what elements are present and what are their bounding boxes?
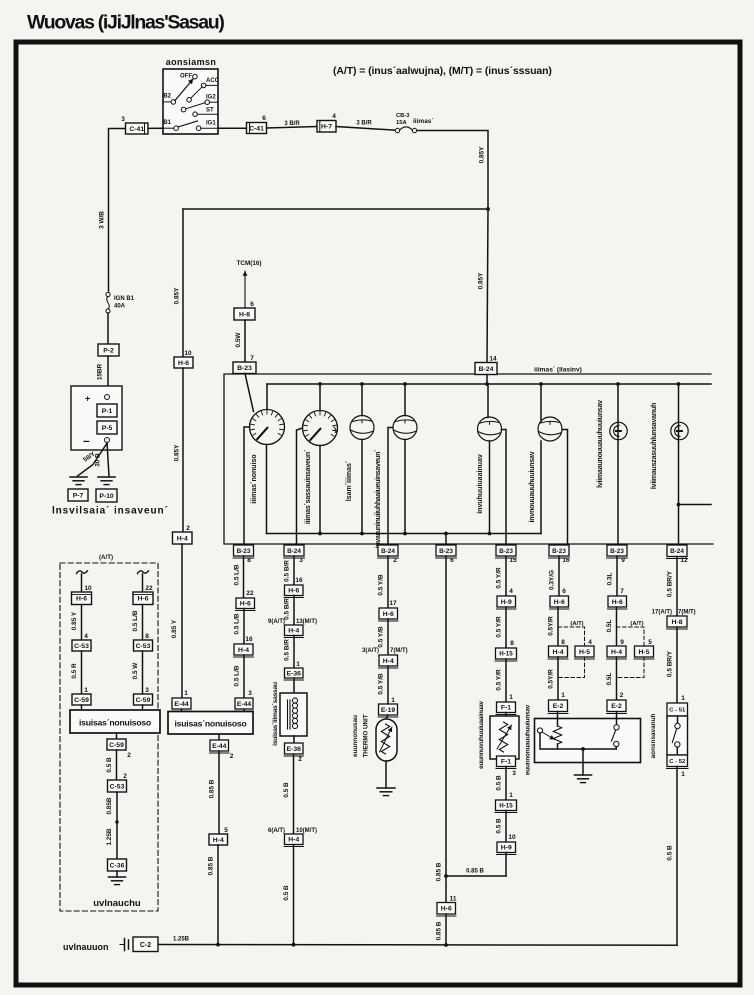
temp gauge	[393, 416, 417, 440]
wire 0.85 B E-44 to H-4	[209, 751, 220, 834]
pin labels 9(A/T) 13(M/T)	[268, 619, 317, 625]
water filter lamp label	[651, 403, 658, 489]
connector C-59 pin 3	[134, 687, 153, 705]
wire 0.5 L/B B-23-8 to H-6	[234, 556, 244, 598]
svg-text:0.5Y/R: 0.5Y/R	[548, 616, 555, 636]
panel bottom bus	[267, 533, 542, 535]
wire 0.3L B-23-9 to H-6	[607, 556, 618, 596]
connector B-24 pin 12	[667, 545, 688, 564]
connector C-52 pin 1	[667, 755, 689, 778]
svg-text:H-6: H-6	[288, 588, 299, 595]
svg-text:B-23: B-23	[499, 548, 513, 555]
connector E-19 pin 1	[378, 697, 398, 717]
wire tach left exit	[297, 428, 303, 545]
connector B-23 pin 16	[549, 545, 570, 564]
wire 0.5 B/R H-4 to E-36	[284, 636, 295, 669]
wire label 15BR	[97, 356, 109, 395]
svg-text:6: 6	[450, 557, 454, 564]
connector H-9 pin 4	[497, 588, 517, 609]
svg-text:H-15: H-15	[499, 802, 513, 809]
svg-text:2: 2	[186, 525, 190, 532]
svg-text:30 B: 30 B	[95, 453, 102, 467]
svg-text:2: 2	[230, 753, 234, 760]
junction at feeder split	[486, 207, 490, 211]
svg-text:H-4: H-4	[213, 837, 224, 844]
wire lamp1 through	[617, 384, 619, 545]
connector H-4 pin 5	[209, 827, 228, 845]
connector B-24 pin 3	[284, 545, 305, 564]
svg-text:H-6: H-6	[612, 599, 623, 606]
svg-text:C-53: C-53	[74, 643, 89, 650]
svg-text:IGN B1: IGN B1	[114, 296, 135, 302]
connector B-24 pin 2	[378, 545, 399, 564]
svg-text:3(A/T): 3(A/T)	[362, 648, 379, 654]
wire 0.5 Y/B H-4 to E-19	[378, 666, 389, 704]
svg-text:lnsvilsaia´ insaveun´: lnsvilsaia´ insaveun´	[52, 506, 169, 517]
svg-text:euunnonuauuhuuiunsav: euunnonuauuhuuiunsav	[525, 704, 532, 775]
svg-text:11: 11	[450, 896, 457, 903]
svg-text:C-59: C-59	[136, 697, 151, 704]
junction lamp2 branch	[677, 503, 681, 507]
svg-text:0.5 L/B: 0.5 L/B	[234, 613, 241, 634]
svg-text:B1: B1	[163, 120, 171, 126]
connector H-6 pin 22	[236, 590, 256, 611]
svg-text:1.25B: 1.25B	[173, 937, 190, 943]
connector H-4 pin 8	[548, 639, 568, 659]
svg-text:F-1: F-1	[501, 705, 511, 712]
wire 0.5L H-6 to H-4	[606, 607, 617, 646]
svg-text:6: 6	[262, 115, 266, 122]
tach sensor rotated label	[272, 682, 279, 746]
svg-text:H-9: H-9	[501, 845, 512, 852]
wire speedometer bottom	[266, 445, 268, 534]
voltmeter label	[346, 460, 353, 501]
svg-text:C-53: C-53	[136, 643, 151, 650]
svg-text:P-10: P-10	[99, 493, 114, 500]
svg-text:2: 2	[620, 692, 624, 699]
title text	[27, 12, 224, 34]
svg-text:2: 2	[123, 773, 127, 780]
svg-text:0.85 B: 0.85 B	[436, 921, 443, 940]
wire label 30 B	[95, 453, 102, 467]
dashed A/T branch to H-5 pin 5	[617, 621, 653, 646]
oil gauge	[538, 417, 562, 441]
switch terminal IG1	[196, 121, 218, 131]
wire 0.5 Y/R B-23-15 to H-9	[496, 556, 507, 596]
svg-text:C-36: C-36	[110, 862, 125, 869]
wire 0.85 B branch to fuel column	[446, 869, 506, 877]
label chassis / engine	[52, 506, 169, 517]
svg-text:6(A/T): 6(A/T)	[268, 828, 285, 834]
wire label 1.25B (A/T)	[106, 828, 113, 845]
node TCM(16)	[237, 260, 262, 267]
wire tach bottom	[318, 446, 322, 536]
wire voltmeter top	[361, 384, 363, 416]
tachometer label	[305, 449, 312, 524]
svg-text:7(M/T): 7(M/T)	[390, 648, 408, 654]
wire 0.5 B H-4 to bottom	[283, 845, 294, 945]
bus junction temp	[403, 382, 407, 386]
switch terminal IG2	[205, 95, 218, 105]
connector H-6 pin 16	[284, 577, 304, 598]
svg-text:–: –	[83, 434, 90, 448]
dashed A/T branch below H-5 (2)	[617, 657, 645, 678]
svg-text:40A: 40A	[114, 304, 126, 310]
wire 0.85B (A/T)	[106, 792, 117, 859]
svg-text:TCM(16): TCM(16)	[237, 260, 262, 267]
connector H-4 pin 2	[173, 525, 193, 544]
svg-text:22: 22	[246, 590, 254, 597]
svg-text:CB-3: CB-3	[396, 113, 410, 119]
bus junction B-24 feed	[485, 382, 489, 386]
svg-text:2: 2	[127, 752, 131, 759]
svg-text:0.5 B: 0.5 B	[496, 818, 503, 834]
svg-text:H-8: H-8	[672, 619, 683, 626]
connector B-23 pin 9	[607, 545, 628, 564]
svg-text:1: 1	[509, 792, 513, 799]
svg-text:aonsnsavanuh: aonsnsavanuh	[650, 714, 657, 759]
wire label 3 B/R	[267, 121, 318, 128]
speed sensor box (A/T)	[70, 705, 160, 733]
wire 0.5 B/R B-24-3 to H-6	[284, 556, 295, 585]
oil unit ground tap	[581, 747, 585, 775]
connector H-6 pin 17	[379, 600, 399, 621]
dashed A/T branch below H-5	[558, 657, 585, 678]
svg-text:C-53: C-53	[110, 783, 125, 790]
connector C-53 pin 4	[72, 633, 91, 651]
wire 0.5Y/R H-4 to E-2	[548, 657, 559, 700]
dashed box (A/T) left fender	[60, 554, 158, 911]
wire 0.3Y/G B-23-16 to H-6	[549, 556, 560, 596]
svg-text:0.5 L/B: 0.5 L/B	[132, 610, 139, 631]
junction bottom ground col	[444, 943, 448, 947]
wire 0.5L H-4 to E-2	[606, 657, 617, 700]
svg-text:0.5 Y/B: 0.5 Y/B	[378, 673, 385, 695]
wire diagonal 58/Y	[78, 444, 107, 476]
svg-text:0.5 B: 0.5 B	[283, 782, 290, 798]
connector E-44 pin 1	[172, 690, 192, 711]
svg-text:isuisas´nonuisoso: isuisas´nonuisoso	[174, 719, 246, 729]
svg-text:8: 8	[247, 557, 251, 564]
svg-text:0.85Y: 0.85Y	[479, 146, 486, 163]
wire 0.85 Y (A/T)	[71, 605, 82, 641]
wire 0.5 Y/B B-24-2 to H-6	[378, 556, 389, 608]
svg-text:H-5: H-5	[639, 649, 650, 656]
svg-text:1: 1	[184, 690, 188, 697]
wire pigtail-L to H-6	[82, 574, 92, 592]
oil warning lamp label	[597, 400, 604, 488]
svg-text:4: 4	[84, 633, 88, 640]
water filter switch	[667, 716, 688, 755]
tach sensor coil	[280, 661, 307, 743]
bottom ground wire	[158, 944, 677, 947]
svg-text:lviimauszasuuhlunsavanuh: lviimauszasuuhlunsavanuh	[651, 403, 658, 489]
svg-text:15: 15	[509, 557, 517, 564]
svg-text:+: +	[85, 394, 90, 404]
wire label 0.85Y (2)	[478, 272, 485, 289]
svg-text:0.85 B: 0.85 B	[466, 869, 484, 875]
bus junction lamp1	[616, 382, 620, 386]
connector C-2	[133, 937, 158, 952]
wire 0.5 B C-52 to bottom	[667, 767, 678, 946]
wire 0.5Y/R H-6 to H-4	[548, 607, 559, 646]
svg-text:3 W/B: 3 W/B	[99, 211, 106, 229]
svg-text:0.5 B: 0.5 B	[283, 885, 290, 901]
circuit breaker CB-3 15A	[395, 113, 433, 133]
svg-text:3: 3	[145, 687, 149, 694]
wire label 0.5W	[235, 320, 245, 362]
connector H-7 pin 4	[317, 113, 336, 132]
svg-text:0.5L: 0.5L	[606, 673, 613, 686]
svg-text:B-23: B-23	[237, 365, 252, 372]
fuse IGN B1 40A	[106, 292, 135, 313]
svg-text:E-2: E-2	[611, 703, 622, 710]
svg-text:Wuovas (iJiJlnas'Sasau): Wuovas (iJiJlnas'Sasau)	[27, 12, 224, 34]
wire pigtail-R to H-6	[143, 574, 153, 592]
connector B-23 pin 15	[496, 545, 517, 564]
svg-text:invuhuuiuaainuav: invuhuuiuaainuav	[477, 454, 484, 514]
connector H-9 pin 10	[497, 834, 517, 855]
svg-text:B-23: B-23	[610, 548, 624, 555]
connector E-2 pin 2	[607, 692, 627, 714]
wire 0.5 L/B H-6 to H-4	[234, 609, 245, 645]
svg-text:13(M/T): 13(M/T)	[296, 619, 317, 625]
svg-text:1: 1	[509, 694, 513, 701]
svg-text:H-4: H-4	[238, 647, 249, 654]
svg-text:17(A/T): 17(A/T)	[652, 610, 672, 616]
svg-text:H-15: H-15	[499, 651, 513, 658]
svg-text:B-24: B-24	[670, 548, 684, 555]
svg-text:6: 6	[562, 588, 566, 595]
connector H-4 pin 9/13	[284, 625, 304, 638]
svg-text:euunnuvuhuuiuaainuav: euunnuvuhuuiuaainuav	[478, 701, 485, 769]
svg-text:H-7: H-7	[321, 124, 332, 131]
connector H-6 pin 7	[608, 588, 628, 609]
wire label 58/Y	[82, 450, 97, 464]
svg-text:15A: 15A	[396, 120, 407, 126]
svg-text:0.5 B: 0.5 B	[496, 775, 503, 791]
svg-text:0.5Y/R: 0.5Y/R	[548, 669, 555, 689]
svg-text:iiimas´: iiimas´	[413, 118, 434, 125]
svg-text:H-9: H-9	[501, 599, 512, 606]
junction bottom left sensor	[216, 943, 220, 947]
svg-text:6: 6	[250, 301, 254, 308]
svg-text:22: 22	[145, 585, 153, 592]
svg-text:P-2: P-2	[103, 347, 114, 354]
svg-text:C-2: C-2	[140, 942, 151, 949]
ground engine right	[98, 477, 115, 485]
svg-text:(A/T): (A/T)	[99, 554, 113, 561]
svg-text:iiimas´ (ilasinv): iiimas´ (ilasinv)	[534, 367, 582, 374]
svg-text:0.5 B/R: 0.5 B/R	[284, 639, 291, 661]
wire label 0.85Y	[479, 146, 486, 163]
connector C-53 pin 8	[134, 633, 153, 651]
connector E-36 pin 2	[284, 743, 304, 763]
connector F-1 pin 3	[496, 756, 516, 777]
ground chassis left	[70, 477, 87, 485]
wire B-23-6 down	[436, 556, 447, 903]
svg-text:3 B/R: 3 B/R	[356, 121, 372, 127]
connector H-6 pin 10 (A/T)	[72, 592, 92, 605]
svg-text:C-41: C-41	[129, 126, 144, 133]
svg-text:3: 3	[512, 770, 516, 777]
connector H-6 pin 6	[550, 588, 570, 609]
bottom bus junction voltmeter	[360, 532, 364, 536]
svg-text:1: 1	[84, 687, 88, 694]
svg-text:7: 7	[620, 588, 624, 595]
connector P-1	[97, 404, 117, 417]
svg-text:10(M/T): 10(M/T)	[296, 828, 317, 834]
svg-text:B-23: B-23	[439, 548, 453, 555]
svg-text:1: 1	[681, 771, 685, 778]
wire C-41 left to switch	[148, 127, 163, 129]
fuel sender unit	[490, 713, 519, 760]
svg-text:H-8: H-8	[239, 311, 250, 318]
connector H-8 pin 17/7	[667, 616, 688, 629]
wire fuel top	[487, 384, 489, 418]
connector E-44 pin 3	[235, 690, 254, 711]
bus junction tach	[318, 382, 322, 386]
bus junction voltmeter	[360, 382, 364, 386]
connector H-4 pin 3/7	[379, 655, 399, 668]
svg-text:3: 3	[248, 690, 252, 697]
svg-text:E-36: E-36	[287, 746, 302, 753]
junction 0.85B branch	[444, 874, 448, 878]
ground thermo	[377, 788, 395, 796]
svg-text:9: 9	[621, 557, 625, 564]
wire C-41 left to W/B vertical	[109, 129, 126, 292]
connector H-6 pin 10	[174, 350, 193, 368]
svg-text:0.85B: 0.85B	[106, 797, 113, 814]
wire diagonal into speedometer	[245, 374, 254, 412]
wire 0.5 R	[71, 651, 82, 694]
wire 0.5 BR/Y H-8 to C-51	[667, 627, 678, 703]
connector H-5 pin 4	[575, 646, 595, 659]
wire 0.85 B H-4 to bottom	[208, 845, 219, 945]
speed sensor box	[168, 709, 253, 734]
legend (A/T)=(auto),(M/T)=(manual)	[333, 65, 552, 77]
ground left fender	[109, 871, 126, 885]
wire 0.5 Y/B H-6 to H-4	[378, 619, 389, 655]
svg-text:5: 5	[648, 639, 652, 646]
chassis bolt symbol	[120, 939, 129, 951]
svg-text:4: 4	[588, 639, 592, 646]
connector C-41 pin 3	[121, 116, 148, 134]
thermo unit label thai	[352, 715, 359, 757]
bottom bus junction fuel	[488, 532, 492, 536]
svg-text:9: 9	[620, 639, 624, 646]
wire tach top	[319, 384, 321, 411]
svg-text:E-44: E-44	[174, 701, 189, 708]
wire 0.5 L/B (A/T)	[132, 605, 143, 641]
connector P-7	[68, 489, 88, 501]
svg-text:0.85 Y: 0.85 Y	[71, 611, 78, 630]
svg-text:3: 3	[121, 116, 125, 123]
svg-text:16: 16	[245, 636, 253, 643]
svg-text:0.5 R: 0.5 R	[71, 663, 78, 679]
svg-text:0.85Y: 0.85Y	[174, 444, 181, 461]
tachometer meter	[303, 411, 338, 446]
svg-text:7: 7	[250, 355, 254, 362]
wire fuel signal exit	[502, 430, 507, 546]
svg-text:uvlnauuon: uvlnauuon	[63, 942, 109, 952]
svg-text:0.5 BR/Y: 0.5 BR/Y	[667, 650, 674, 677]
svg-text:ACC: ACC	[206, 78, 220, 84]
connector C-59 pin 1	[72, 687, 91, 705]
svg-text:uvlnauchu: uvlnauchu	[93, 898, 141, 909]
connector C-53 pin 2	[108, 773, 128, 792]
svg-text:0.5 Y/R: 0.5 Y/R	[496, 567, 503, 589]
wire temp signal exit	[388, 428, 393, 546]
wire thermo to ground	[385, 761, 387, 788]
wire battery minus down	[107, 443, 109, 477]
wire switch to C-41 right	[218, 127, 247, 129]
bottom bus junction ground col	[444, 532, 448, 545]
speedometer label	[251, 454, 258, 503]
wire CB-3 to 0.85Y vertical	[417, 131, 488, 210]
fuel gauge	[478, 417, 502, 441]
svg-text:E-19: E-19	[381, 707, 396, 714]
connector E-44 pin 2	[210, 734, 234, 760]
svg-text:IG2: IG2	[206, 95, 216, 101]
connector H-8 pin 6	[234, 301, 255, 320]
svg-text:0.5L: 0.5L	[606, 620, 613, 633]
ground oil unit	[575, 775, 592, 783]
connector E-2 pin 1	[548, 692, 568, 714]
svg-text:H-4: H-4	[553, 649, 564, 656]
wire 0.5 B E-36 to H-4	[283, 754, 294, 834]
pigtail left	[77, 571, 88, 574]
svg-text:euunnonusau: euunnonusau	[352, 715, 359, 757]
switch terminal B1	[163, 120, 178, 131]
dashed A/T branch to H-5 pin 4	[558, 621, 592, 646]
svg-text:5: 5	[224, 827, 228, 834]
junction bottom tach sensor	[292, 943, 296, 947]
svg-text:H-4: H-4	[383, 658, 394, 665]
wire label 1.25B	[173, 937, 190, 943]
svg-text:H-6: H-6	[554, 599, 565, 606]
svg-text:B-23: B-23	[552, 548, 566, 555]
connector H-4 pin 16	[234, 636, 254, 657]
svg-text:C-59: C-59	[109, 742, 124, 749]
svg-text:17: 17	[389, 600, 397, 607]
wire 0.5 Y/R H-9 to H-15	[496, 607, 507, 648]
wire 0.5 BR/Y B-24-12 to H-8	[667, 557, 678, 617]
svg-text:0.85Y: 0.85Y	[478, 272, 485, 289]
svg-text:2: 2	[393, 557, 397, 564]
svg-text:0.85Y: 0.85Y	[174, 287, 181, 304]
temp gauge label	[375, 449, 382, 548]
battery / power unit box	[71, 386, 122, 450]
label left fender	[93, 898, 141, 909]
oil gauge label	[529, 451, 536, 522]
voltmeter gauge	[350, 416, 374, 440]
fuel gauge label	[477, 454, 484, 514]
svg-text:B-24: B-24	[287, 548, 301, 555]
fuel sender label	[478, 701, 485, 769]
svg-text:3 B/R: 3 B/R	[284, 121, 300, 127]
svg-text:16: 16	[562, 557, 570, 564]
svg-text:(A/T) = (inus´aalwujna), (M: (A/T) = (inus´aalwujna), (M/T) = (inus´s…	[333, 65, 552, 77]
oil warning lamp	[610, 422, 627, 439]
svg-text:16: 16	[295, 577, 303, 584]
svg-text:0.5 B/R: 0.5 B/R	[284, 560, 291, 582]
svg-text:0.5 L/B: 0.5 L/B	[234, 564, 241, 585]
connector B-23 pin 8	[233, 545, 254, 564]
svg-text:isuisas´nonuisoso: isuisas´nonuisoso	[79, 718, 151, 728]
connector H-5 pin 5	[634, 646, 654, 659]
svg-text:0.5 BR/Y: 0.5 BR/Y	[667, 570, 674, 597]
